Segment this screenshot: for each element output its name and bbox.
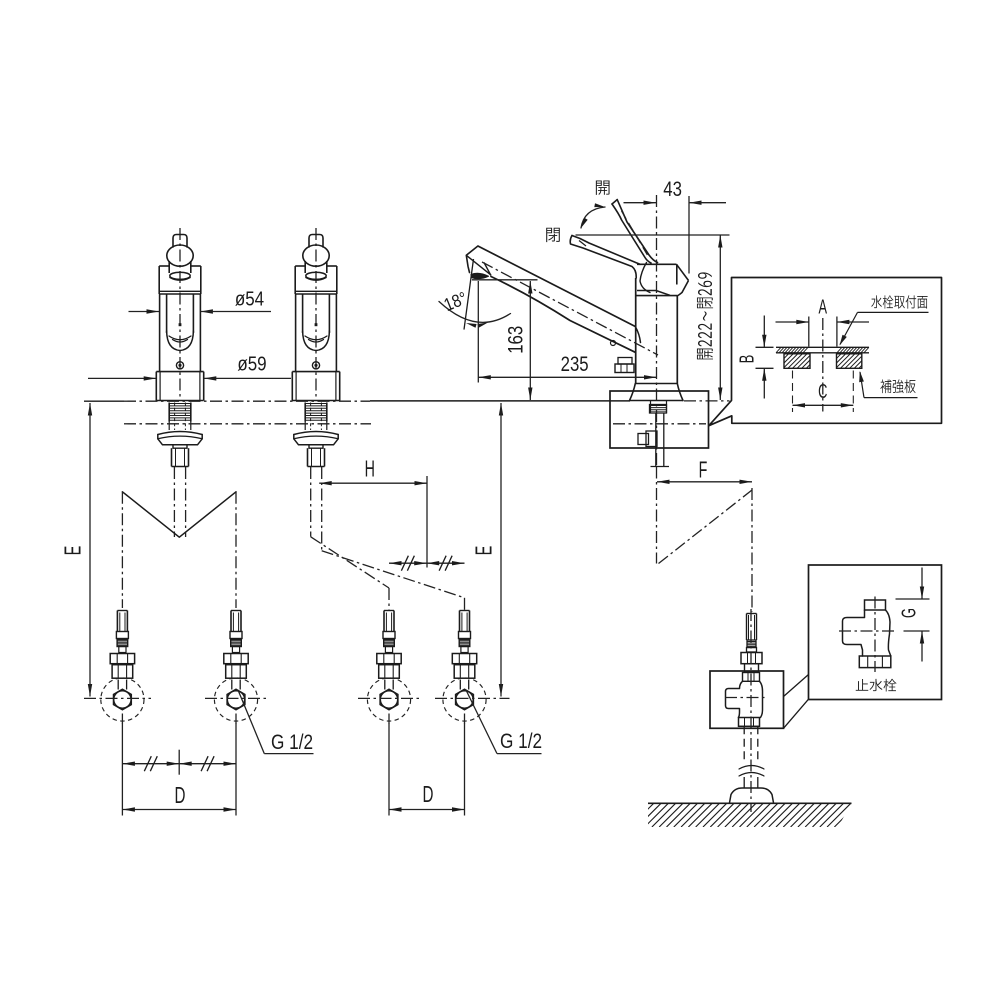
dimension H	[319, 457, 427, 567]
svg-text:D: D	[175, 783, 186, 809]
svg-text:H: H	[365, 457, 375, 482]
side view spout	[466, 246, 658, 355]
stop valve detail box outline	[809, 565, 942, 700]
stop valve front view 2	[214, 611, 257, 724]
side view faucet body	[611, 278, 684, 401]
dimension C	[793, 371, 854, 413]
thread label G 1/2 left	[238, 690, 314, 754]
label closed kanji	[546, 228, 560, 242]
svg-text:G 1/2: G 1/2	[271, 732, 313, 755]
dimension 163	[472, 280, 538, 400]
svg-text:D: D	[423, 782, 434, 808]
mounting detail box outline	[709, 278, 942, 426]
equal spacing marks pair 2	[389, 556, 465, 571]
dimension D pair 1	[122, 723, 236, 816]
diagonal supply line to stop valve	[659, 488, 753, 612]
dimension open 222 - closed 269	[576, 235, 730, 400]
callout box around stop valve	[710, 671, 784, 728]
callout box around faucet base	[610, 391, 709, 448]
dimension D pair 2	[389, 723, 465, 816]
floor line with hatching	[630, 803, 880, 827]
stop valve side view upper stack	[741, 614, 762, 673]
svg-text:18°: 18°	[441, 288, 470, 316]
stop valve front view 4	[443, 611, 486, 724]
counter mounting surface line	[84, 401, 730, 424]
handle swing arc arrow	[581, 203, 605, 228]
svg-text:A: A	[819, 296, 828, 319]
faucet front view 1 (body)	[156, 228, 203, 467]
stop valve front view 3	[367, 611, 410, 724]
thread label G 1/2 right	[466, 690, 542, 754]
faucet front view 2 (body)	[292, 228, 339, 467]
stop valve horizontal center lines	[84, 697, 510, 699]
leader lines to stop valve detail box	[784, 675, 809, 729]
svg-text:E: E	[472, 546, 497, 556]
equal spacing marks pair 1	[122, 750, 236, 775]
reinforcement plate left	[770, 354, 821, 369]
stop valve front view 1	[101, 611, 144, 724]
floor pipe and escutcheon	[730, 726, 774, 803]
reinforcement plate right	[822, 354, 873, 369]
svg-text:ø54: ø54	[235, 287, 264, 310]
supply pipes under faucet 2 offset diagonals	[311, 467, 465, 611]
svg-text:ø59: ø59	[237, 352, 266, 375]
svg-text:B: B	[736, 355, 759, 364]
dimension G	[896, 568, 930, 662]
detail box center line	[822, 318, 824, 412]
lever handle open position	[612, 200, 658, 263]
countertop cross-section strip	[776, 347, 869, 353]
stop valve body side view	[725, 609, 766, 812]
dimension E left	[61, 403, 92, 697]
svg-text:163: 163	[505, 326, 528, 354]
stop valve detail drawing	[839, 597, 896, 673]
dimension A	[776, 296, 870, 347]
supply pipes under faucet 1 with chevron	[122, 467, 236, 608]
svg-text:G 1/2: G 1/2	[500, 731, 542, 754]
angle 18 degrees	[439, 259, 511, 330]
svg-text:F: F	[699, 458, 708, 483]
label mounting surface	[840, 295, 929, 345]
dimension 43	[624, 178, 727, 273]
lever handle closed position	[570, 236, 640, 279]
dimension E right	[472, 403, 503, 697]
label open kanji	[596, 181, 610, 195]
svg-text:43: 43	[663, 178, 682, 201]
dimension diameter 59	[88, 352, 291, 380]
label stop valve kanji	[856, 679, 897, 692]
svg-text:E: E	[61, 546, 86, 556]
dimension B	[736, 316, 774, 399]
svg-text:G: G	[898, 608, 921, 618]
dimension F	[657, 458, 752, 484]
shank and hose connection under counter	[613, 401, 706, 467]
svg-text:235: 235	[561, 353, 589, 376]
faucet side view center line	[656, 195, 658, 564]
handle pivot housing	[636, 263, 689, 297]
label reinforcement plate	[859, 371, 917, 398]
dimension 235	[478, 281, 656, 383]
dimension diameter 54	[129, 287, 272, 314]
